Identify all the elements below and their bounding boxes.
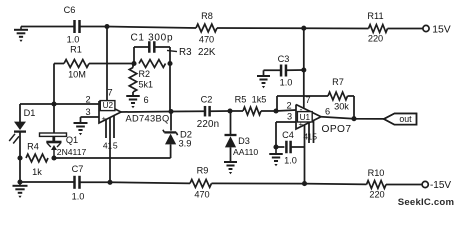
svg-text:10M: 10M <box>68 70 86 80</box>
svg-text:R7: R7 <box>332 77 344 87</box>
svg-text:5: 5 <box>113 141 118 151</box>
svg-text:1k5: 1k5 <box>252 95 267 105</box>
svg-text:220: 220 <box>369 190 384 200</box>
svg-text:1.0: 1.0 <box>280 77 293 87</box>
svg-text:22K: 22K <box>198 47 216 58</box>
svg-text:U1: U1 <box>300 113 311 122</box>
svg-text:C6: C6 <box>64 5 76 15</box>
svg-text:2N4117: 2N4117 <box>57 147 87 157</box>
svg-text:1: 1 <box>107 141 112 151</box>
svg-text:D1: D1 <box>24 108 36 118</box>
svg-text:C4: C4 <box>282 130 294 140</box>
svg-text:5: 5 <box>312 131 317 141</box>
svg-text:C2: C2 <box>201 95 213 105</box>
svg-text:out: out <box>399 114 412 124</box>
svg-text:30k: 30k <box>334 102 349 112</box>
svg-text:6: 6 <box>143 95 148 105</box>
svg-text:SeekIC.com: SeekIC.com <box>398 197 454 208</box>
svg-text:R8: R8 <box>201 11 213 21</box>
svg-text:5k1: 5k1 <box>139 80 154 90</box>
svg-text:3: 3 <box>287 112 292 122</box>
svg-text:R4: R4 <box>27 142 39 152</box>
svg-text:R11: R11 <box>367 11 383 21</box>
svg-text:470: 470 <box>194 190 209 200</box>
svg-text:R5: R5 <box>235 95 247 105</box>
svg-text:2: 2 <box>286 100 291 110</box>
svg-text:220n: 220n <box>197 119 220 130</box>
svg-text:7: 7 <box>107 87 112 97</box>
svg-text:-15V: -15V <box>430 180 451 191</box>
svg-text:Q1: Q1 <box>66 135 78 145</box>
svg-text:R2: R2 <box>139 69 151 79</box>
svg-text:470: 470 <box>199 35 214 45</box>
svg-text:1k: 1k <box>32 167 42 177</box>
svg-text:1.0: 1.0 <box>72 192 85 202</box>
svg-text:R3: R3 <box>179 47 192 58</box>
svg-text:U2: U2 <box>103 101 114 110</box>
svg-text:D3: D3 <box>238 136 250 146</box>
svg-text:6: 6 <box>325 106 330 116</box>
svg-text:3: 3 <box>85 107 90 117</box>
svg-text:1.0: 1.0 <box>67 34 80 44</box>
svg-text:C1 300p: C1 300p <box>131 32 174 43</box>
svg-text:C3: C3 <box>278 54 290 64</box>
svg-text:R9: R9 <box>197 166 209 176</box>
svg-text:1.0: 1.0 <box>284 156 297 166</box>
svg-text:OPO7: OPO7 <box>322 124 352 135</box>
svg-text:R10: R10 <box>368 168 385 178</box>
svg-text:AD743BQ: AD743BQ <box>126 114 170 124</box>
svg-text:15V: 15V <box>432 25 451 36</box>
svg-text:R1: R1 <box>70 45 82 55</box>
svg-text:C7: C7 <box>72 164 84 174</box>
svg-text:3.9: 3.9 <box>178 138 191 149</box>
svg-text:2: 2 <box>85 95 90 105</box>
svg-text:220: 220 <box>368 34 383 44</box>
svg-text:AA110: AA110 <box>233 147 258 157</box>
